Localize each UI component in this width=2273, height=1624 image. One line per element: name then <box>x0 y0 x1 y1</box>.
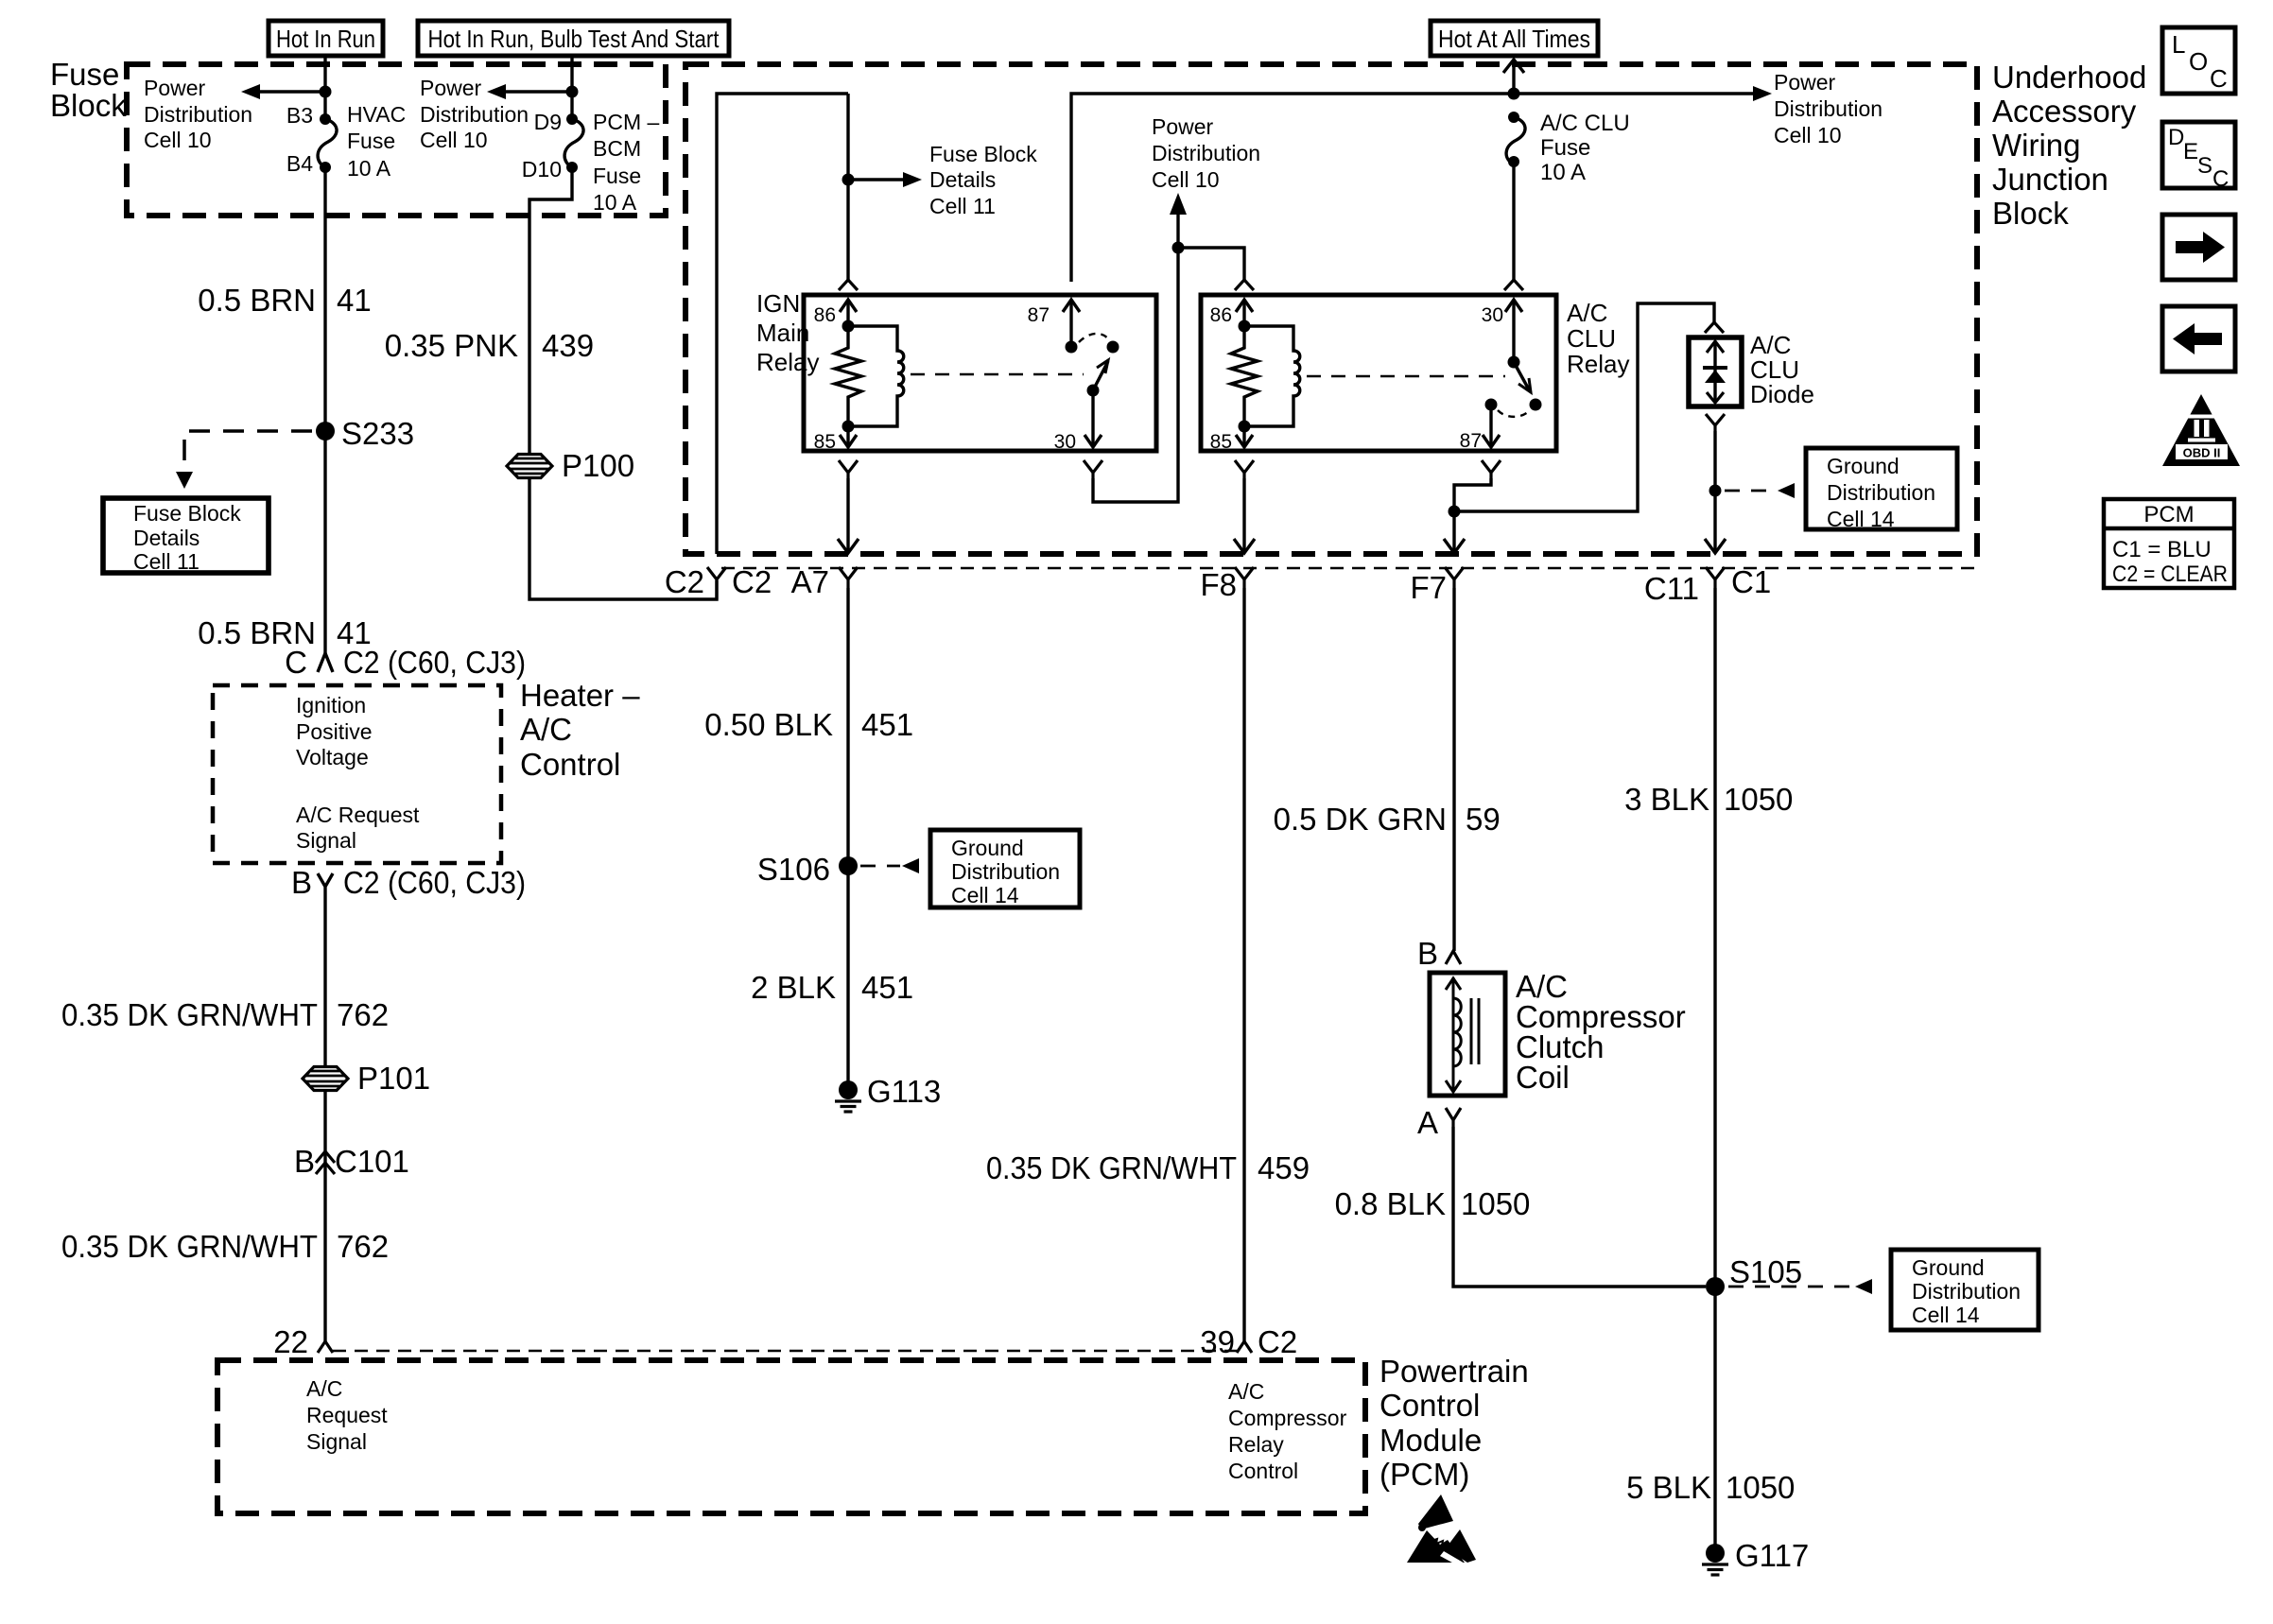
wire label 0.50 BLK 451 <box>704 707 913 742</box>
svg-text:0.35 DK GRN/WHT: 0.35 DK GRN/WHT <box>61 997 318 1032</box>
svg-text:1050: 1050 <box>1726 1470 1795 1505</box>
pin C11 / C1 fork below junction block <box>1644 564 1771 606</box>
svg-text:B: B <box>1417 936 1438 971</box>
node junction dot at A/C CLU fuse feed <box>1508 88 1520 100</box>
ground G113 <box>835 1074 941 1112</box>
svg-text:IGN: IGN <box>756 289 800 318</box>
svg-text:G113: G113 <box>867 1074 941 1109</box>
wire F7 down to clutch coil pin B <box>1452 588 1455 951</box>
svg-text:A: A <box>1417 1105 1438 1140</box>
value A/C CLU Fuse 10 A label <box>1540 111 1630 185</box>
svg-text:A/C CLU: A/C CLU <box>1540 111 1630 136</box>
svg-text:Accessory: Accessory <box>1992 94 2137 129</box>
svg-text:Relay: Relay <box>1228 1432 1284 1457</box>
svg-text:PCM –: PCM – <box>593 110 660 134</box>
svg-text:A/C: A/C <box>520 712 572 747</box>
node B4 terminal dot <box>320 162 331 173</box>
svg-text:C: C <box>285 645 307 680</box>
fuse block label <box>50 57 127 123</box>
svg-text:0.35 PNK: 0.35 PNK <box>385 328 518 363</box>
svg-text:Ground: Ground <box>1912 1255 1985 1280</box>
node Power Distribution Cell 10 text (top right) <box>1774 70 1883 147</box>
node junction dot to fuse block details <box>842 174 855 186</box>
wire from P100 down and right to junction block C2 <box>529 478 717 599</box>
wire riser to IGN relay pin 86 <box>846 94 849 282</box>
pin 85 arrow inside relay (IGN) <box>840 426 857 447</box>
svg-text:PCM: PCM <box>2143 502 2194 527</box>
svg-text:HVAC: HVAC <box>347 102 406 127</box>
svg-text:59: 59 <box>1466 802 1501 837</box>
svg-text:B: B <box>294 1144 315 1179</box>
svg-text:Cell 14: Cell 14 <box>1912 1303 1980 1327</box>
pin 86 arrow inside relay (CLU) <box>1236 300 1253 326</box>
node Hot In Run, Bulb Test And Start label box <box>418 21 729 56</box>
connector C101 inline connector <box>294 1144 409 1179</box>
svg-text:0.5 DK GRN: 0.5 DK GRN <box>1274 802 1447 837</box>
svg-text:Ground: Ground <box>1827 454 1900 478</box>
svg-text:CLU: CLU <box>1567 324 1616 353</box>
wire label 0.5 BRN 41 (lower) <box>198 615 371 650</box>
svg-text:Module: Module <box>1379 1423 1482 1458</box>
svg-text:D: D <box>2168 125 2184 150</box>
wire dashed reference to ground distribution (upper) <box>1725 483 1795 498</box>
node Powertrain Control Module dashed box <box>217 1360 1365 1513</box>
svg-text:10 A: 10 A <box>1540 160 1586 185</box>
wire arrow crossing bottom edge at F8 <box>1234 539 1255 553</box>
wire IGN 30 jog to power distribution and CLU 86 <box>1093 248 1178 502</box>
svg-text:Distribution: Distribution <box>951 859 1060 884</box>
svg-text:C: C <box>2212 166 2229 192</box>
svg-text:Cell 14: Cell 14 <box>951 883 1019 907</box>
wire dashed switch throw arc (CLU) <box>1498 410 1529 417</box>
wire junction block internal bus (right segment) <box>1071 94 1754 282</box>
node DESC legend box <box>2162 122 2235 192</box>
value HVAC Fuse 10 A label <box>347 102 406 181</box>
pin 86 arrow inside relay (IGN) <box>840 300 857 326</box>
pin 85 fork below IGN relay <box>839 460 858 478</box>
wire from coil A to splice S105 <box>1453 1127 1706 1287</box>
svg-text:30: 30 <box>1482 304 1503 326</box>
svg-text:S233: S233 <box>341 416 414 451</box>
wire D10 down and jog left to P100 <box>529 167 572 455</box>
node Heater A/C Control label <box>520 678 640 782</box>
svg-text:C1: C1 <box>1731 564 1771 599</box>
wire dashed switch throw arc (IGN) <box>1079 334 1110 342</box>
svg-text:Cell 14: Cell 14 <box>1827 507 1895 531</box>
svg-text:Details: Details <box>929 167 996 192</box>
svg-text:C: C <box>2210 64 2228 93</box>
fuse A/C CLU Fuse 10 A <box>1506 112 1525 167</box>
svg-text:C2: C2 <box>732 564 772 599</box>
wire from Hot In Run box into fuse block <box>323 56 326 119</box>
pin diode top connector chevron <box>1705 322 1724 333</box>
ESD sensitive device symbol <box>1407 1494 1476 1567</box>
wire label 0.35 DK GRN/WHT 762 (upper) <box>61 997 389 1032</box>
wire arrow to power distribution (left) <box>241 84 325 99</box>
wire branch to CLU relay pin 86 <box>1178 248 1244 282</box>
svg-text:C2: C2 <box>1258 1324 1297 1359</box>
svg-text:Details: Details <box>133 526 200 550</box>
svg-text:Fuse Block: Fuse Block <box>133 501 241 526</box>
svg-text:Control: Control <box>1379 1388 1480 1423</box>
coil A/C Compressor Clutch Coil box <box>1430 973 1505 1096</box>
svg-text:22: 22 <box>273 1324 308 1359</box>
node junction dot on HVAC feed <box>320 86 332 98</box>
pin 87 fork below CLU relay <box>1482 460 1501 478</box>
svg-text:Heater –: Heater – <box>520 678 640 713</box>
svg-text:G117: G117 <box>1735 1538 1809 1573</box>
svg-text:Hot At All Times: Hot At All Times <box>1438 25 1590 53</box>
wire arrow up to Power Distribution Cell 10 <box>1170 193 1187 248</box>
wire arrow to power distribution (middle) <box>487 84 572 99</box>
pin C2 fork below junction block <box>665 564 772 599</box>
node Ground Distribution Cell 14 box (upper right) <box>1806 448 1957 531</box>
wire dashed coil to switch (IGN) <box>911 373 1084 376</box>
node B3 terminal dot <box>320 113 331 125</box>
pin 85 arrow inside relay (CLU) <box>1236 426 1253 447</box>
svg-text:P101: P101 <box>357 1061 430 1096</box>
svg-text:86: 86 <box>1210 304 1232 326</box>
wire label 0.5 BRN 41 (upper) <box>198 283 371 318</box>
wire arrow to power distribution cell 10 (right) <box>1753 86 1772 101</box>
pin 39 into PCM <box>1200 1324 1297 1359</box>
wire arrow to fuse block details <box>848 172 922 187</box>
svg-text:Fuse: Fuse <box>1540 135 1590 161</box>
svg-text:A/C: A/C <box>1567 299 1607 327</box>
svg-text:Power: Power <box>420 76 482 100</box>
svg-text:Cell 10: Cell 10 <box>1152 167 1220 192</box>
inductor relay coil (CLU) <box>1244 326 1300 426</box>
svg-text:30: 30 <box>1054 431 1076 453</box>
svg-text:86: 86 <box>814 304 836 326</box>
svg-text:451: 451 <box>861 707 913 742</box>
wire dashed reference from S233 to fuse block details <box>184 431 312 470</box>
svg-text:Wiring: Wiring <box>1992 128 2081 163</box>
node switch pivot dot (CLU) <box>1508 356 1520 369</box>
resistor relay resistor (IGN) <box>835 326 861 426</box>
wire thin dashed PCM-side connector line (junction block) <box>721 567 1975 570</box>
svg-text:5 BLK: 5 BLK <box>1626 1470 1711 1505</box>
node IGN Main Relay label <box>756 289 819 376</box>
svg-text:O: O <box>2189 47 2208 76</box>
svg-text:Control: Control <box>1228 1459 1298 1483</box>
svg-text:C2: C2 <box>665 564 704 599</box>
svg-text:B3: B3 <box>286 103 313 128</box>
svg-text:BCM: BCM <box>593 136 641 161</box>
svg-text:Voltage: Voltage <box>296 745 369 769</box>
svg-text:Powertrain: Powertrain <box>1379 1354 1529 1389</box>
pin 87 arrow inside relay (IGN) <box>1063 300 1080 347</box>
node switch fixed contact 87 dot (IGN) <box>1066 341 1078 354</box>
wire label 0.8 BLK 1050 <box>1335 1186 1531 1221</box>
pin B of clutch coil <box>1417 936 1461 971</box>
wire arrow up to Hot At All Times <box>1503 60 1524 94</box>
pin 30 connector chevron (CLU) <box>1504 280 1523 290</box>
svg-text:Power: Power <box>1774 70 1836 95</box>
svg-text:S: S <box>2197 153 2212 179</box>
svg-text:459: 459 <box>1258 1150 1310 1185</box>
svg-text:1050: 1050 <box>1461 1186 1530 1221</box>
svg-text:451: 451 <box>861 970 913 1005</box>
svg-text:Ignition: Ignition <box>296 693 366 717</box>
wire CLU 87 jog left then down to F7 <box>1454 478 1491 553</box>
svg-text:Underhood: Underhood <box>1992 60 2146 95</box>
node D9 terminal dot <box>566 113 578 125</box>
ground G117 <box>1702 1538 1809 1575</box>
diode element inside <box>1703 341 1727 403</box>
pin 86 connector chevron (IGN) <box>839 280 858 290</box>
svg-text:C11: C11 <box>1644 571 1699 606</box>
svg-text:Request: Request <box>306 1403 388 1427</box>
pin 87 arrow inside relay (CLU) <box>1483 405 1500 447</box>
svg-text:Fuse: Fuse <box>593 164 641 188</box>
pin 30 fork below IGN relay <box>1084 460 1102 478</box>
svg-text:Cell 10: Cell 10 <box>420 128 488 152</box>
node A/C request signal text (PCM) <box>306 1376 388 1454</box>
svg-text:Distribution: Distribution <box>144 102 252 127</box>
svg-text:Control: Control <box>520 747 620 782</box>
connector P100 grommet symbol <box>507 448 634 483</box>
svg-text:Signal: Signal <box>306 1429 367 1454</box>
svg-text:F8: F8 <box>1200 567 1237 602</box>
svg-text:C1 = BLU: C1 = BLU <box>2112 537 2212 562</box>
node switch moving contact dot (CLU) <box>1530 399 1542 411</box>
wire fuse output down to A/C CLU relay pin 30 <box>1512 162 1515 282</box>
svg-text:P100: P100 <box>562 448 634 483</box>
svg-text:Signal: Signal <box>296 828 356 853</box>
node Power Distribution Cell 10 text (fuse block left) <box>144 76 252 152</box>
wire CLU 85 down to bottom edge (F8) <box>1242 478 1245 553</box>
coil element inside <box>1446 977 1479 1092</box>
diode A/C CLU Diode box <box>1689 337 1742 406</box>
svg-text:1050: 1050 <box>1724 782 1793 817</box>
svg-text:2 BLK: 2 BLK <box>751 970 836 1005</box>
switch relay armature (CLU) <box>1514 362 1531 392</box>
svg-text:E: E <box>2183 139 2198 164</box>
wire label 2 BLK 451 <box>751 970 913 1005</box>
underhood accessory wiring junction block dashed outline <box>685 64 1977 554</box>
node switch pivot dot (IGN) <box>1087 385 1100 397</box>
wire C1 down through S105 to ground G117 <box>1713 588 1716 1552</box>
svg-text:85: 85 <box>1210 431 1232 453</box>
svg-text:OBD II: OBD II <box>2183 446 2221 460</box>
pin B connector out of heater control <box>291 865 526 900</box>
pin 85 fork below CLU relay <box>1235 460 1254 478</box>
node Power Distribution Cell 10 text (fuse block middle) <box>420 76 529 152</box>
wire label 0.5 DK GRN 59 <box>1274 802 1501 837</box>
node right-arrow legend box <box>2162 215 2235 280</box>
svg-text:Ground: Ground <box>951 836 1024 860</box>
svg-text:Block: Block <box>1992 196 2069 231</box>
node A/C CLU Relay label <box>1567 299 1629 378</box>
svg-text:87: 87 <box>1028 304 1050 326</box>
svg-text:D10: D10 <box>522 157 562 181</box>
node A/C Compressor Clutch Coil label <box>1516 969 1686 1095</box>
svg-text:85: 85 <box>814 431 836 453</box>
pin 30 arrow inside relay (CLU) <box>1505 300 1522 362</box>
svg-text:Distribution: Distribution <box>1774 96 1883 121</box>
svg-text:Distribution: Distribution <box>1827 480 1935 505</box>
svg-text:C2 (C60, CJ3): C2 (C60, CJ3) <box>343 645 526 680</box>
svg-text:10 A: 10 A <box>347 156 391 181</box>
wire dashed reference to ground distribution (S106) <box>860 858 919 873</box>
node LOC legend box <box>2162 27 2235 94</box>
wire arrow crossing bottom edge at F7 <box>1444 539 1465 553</box>
wire diode output down to bottom edge (C1) <box>1713 431 1716 553</box>
fuse PCM-BCM Fuse 10 A element (S-curve) <box>564 119 583 167</box>
node splice S105 <box>1706 1277 1725 1296</box>
value PCM-BCM Fuse 10 A label <box>593 110 660 215</box>
fuse block dashed outline <box>127 64 666 216</box>
svg-text:Main: Main <box>756 319 809 347</box>
svg-text:L: L <box>2172 30 2185 59</box>
node Powertrain Control Module (PCM) label <box>1379 1354 1529 1492</box>
pin 30 arrow inside relay (IGN) <box>1084 390 1102 447</box>
svg-text:0.35 DK GRN/WHT: 0.35 DK GRN/WHT <box>61 1229 318 1264</box>
wire branch from F7 junction to A/C CLU diode <box>1454 303 1714 511</box>
pin A of clutch coil <box>1417 1105 1461 1140</box>
node D10 terminal dot <box>566 162 578 173</box>
wire dashed coil to switch (CLU) <box>1307 375 1505 378</box>
wire label 0.35 DK GRN/WHT 459 <box>986 1150 1310 1185</box>
svg-text:Hot In Run: Hot In Run <box>276 25 375 53</box>
svg-text:87: 87 <box>1460 430 1482 452</box>
pin C connector into heater control <box>285 645 526 680</box>
svg-text:0.50 BLK: 0.50 BLK <box>704 707 833 742</box>
pin A7 fork below junction block <box>791 564 858 599</box>
svg-text:B4: B4 <box>286 151 313 176</box>
svg-text:A/C Request: A/C Request <box>296 803 420 827</box>
node PCM connector legend table <box>2104 499 2234 588</box>
svg-text:Relay: Relay <box>756 348 819 376</box>
node Hot At All Times label box <box>1431 21 1598 56</box>
svg-text:Cell 11: Cell 11 <box>929 194 996 218</box>
node A/C compressor relay control text (PCM) <box>1228 1379 1347 1483</box>
svg-text:762: 762 <box>337 997 389 1032</box>
svg-text:Power: Power <box>144 76 206 100</box>
node relay coil bottom dot (CLU) <box>1239 421 1251 433</box>
node splice S106 <box>839 856 858 875</box>
wire label 0.35 PNK 439 <box>385 328 594 363</box>
svg-text:C101: C101 <box>335 1144 409 1179</box>
node OBD II triangle symbol <box>2162 394 2240 466</box>
pin F8 fork below junction block <box>1200 567 1254 602</box>
node Fuse Block Details Cell 11 text (junction block) <box>929 142 1037 218</box>
svg-text:Distribution: Distribution <box>1152 141 1260 165</box>
svg-text:F7: F7 <box>1410 570 1447 605</box>
svg-text:Junction: Junction <box>1992 162 2108 197</box>
node junction dot to ground distribution (upper) <box>1709 485 1722 497</box>
wire thin dashed PCM connector line <box>333 1350 1237 1353</box>
wire F8 down to PCM pin 39 <box>1242 588 1245 1341</box>
svg-text:C2 = CLEAR: C2 = CLEAR <box>2112 561 2228 587</box>
svg-text:3 BLK: 3 BLK <box>1624 782 1709 817</box>
svg-text:S106: S106 <box>757 852 830 887</box>
resistor relay resistor (CLU) <box>1231 326 1258 426</box>
svg-text:0.35 DK GRN/WHT: 0.35 DK GRN/WHT <box>986 1150 1237 1185</box>
wire junction block internal bus (left segment) <box>717 94 848 554</box>
node junction dot at power distribution branch <box>1172 242 1185 254</box>
svg-text:Fuse: Fuse <box>50 57 119 92</box>
svg-text:S105: S105 <box>1729 1254 1802 1289</box>
node Heater A/C Control dashed box <box>213 685 501 863</box>
svg-text:Power: Power <box>1152 114 1214 139</box>
node ignition positive voltage text <box>296 693 373 769</box>
wire arrow crossing bottom edge at A7 <box>838 539 859 553</box>
svg-text:(PCM): (PCM) <box>1379 1457 1469 1492</box>
inductor relay coil (IGN) <box>848 326 904 426</box>
wire IGN 85 down to bottom edge (A7) <box>846 478 849 553</box>
svg-text:Relay: Relay <box>1567 350 1629 378</box>
svg-text:B: B <box>291 865 312 900</box>
wire from Hot In Run Bulb Test box into fuse block <box>570 56 573 119</box>
svg-text:Positive: Positive <box>296 719 373 744</box>
node splice S233 <box>316 422 335 441</box>
svg-text:Cell 11: Cell 11 <box>133 549 200 574</box>
svg-text:D9: D9 <box>534 110 562 134</box>
svg-text:41: 41 <box>337 283 372 318</box>
svg-text:A7: A7 <box>791 564 829 599</box>
wire arrow crossing bottom edge at C1 <box>1705 539 1726 553</box>
svg-text:0.8 BLK: 0.8 BLK <box>1335 1186 1446 1221</box>
node junction dot on F7 wire <box>1449 506 1461 518</box>
node relay coil top dot (CLU) <box>1239 320 1251 333</box>
wire label 5 BLK 1050 <box>1626 1470 1795 1505</box>
switch relay armature (IGN) <box>1093 360 1108 390</box>
svg-text:Block: Block <box>50 88 127 123</box>
wire label 0.35 DK GRN/WHT 762 (lower) <box>61 1229 389 1264</box>
wire dashed reference to ground distribution (S105) <box>1728 1279 1872 1294</box>
connector P101 grommet symbol <box>303 1061 430 1096</box>
node junction dot on PCM-BCM feed <box>566 86 579 98</box>
svg-text:Fuse: Fuse <box>347 129 395 153</box>
svg-text:Diode: Diode <box>1750 380 1814 408</box>
pin diode bottom fork <box>1706 414 1725 431</box>
node Hot In Run label box <box>269 21 383 56</box>
svg-text:Distribution: Distribution <box>1912 1279 2021 1304</box>
svg-text:Coil: Coil <box>1516 1060 1570 1095</box>
svg-text:762: 762 <box>337 1229 389 1264</box>
node Ground Distribution Cell 14 box (lower right) <box>1891 1250 2039 1330</box>
pin F7 fork below junction block <box>1410 567 1464 605</box>
fuse HVAC Fuse 10 A element (S-curve) <box>318 119 337 167</box>
relay A/C CLU Relay box <box>1201 295 1556 451</box>
svg-text:Compressor: Compressor <box>1228 1406 1347 1430</box>
pin 22 into PCM <box>273 1324 333 1359</box>
svg-text:439: 439 <box>542 328 594 363</box>
svg-text:Cell 10: Cell 10 <box>1774 123 1842 147</box>
svg-text:Distribution: Distribution <box>420 102 529 127</box>
node Fuse Block Details Cell 11 box (left) <box>103 498 269 574</box>
underhood accessory wiring junction block label <box>1992 60 2146 231</box>
wire from B down through P101 and C101 to PCM pin 22 <box>323 895 326 1343</box>
node relay coil bottom dot (IGN) <box>842 421 855 433</box>
wire label 3 BLK 1050 <box>1624 782 1793 817</box>
node Ground Distribution Cell 14 box (center) <box>930 830 1080 907</box>
svg-text:0.5 BRN: 0.5 BRN <box>198 283 316 318</box>
wire A7 down to ground G113 <box>846 588 849 1089</box>
node left-arrow legend box <box>2162 306 2235 371</box>
svg-text:39: 39 <box>1200 1324 1235 1359</box>
wire HVAC fuse output down to S233 and connector C <box>323 167 326 653</box>
svg-text:Fuse Block: Fuse Block <box>929 142 1037 166</box>
node switch fixed contact 87 dot (CLU) <box>1485 399 1498 411</box>
node switch moving contact dot (IGN) <box>1107 341 1119 354</box>
op-amp n/a : relay IGN Main Relay box <box>804 295 1156 451</box>
svg-text:Cell 10: Cell 10 <box>144 128 212 152</box>
svg-text:A/C: A/C <box>306 1376 342 1401</box>
svg-text:10 A: 10 A <box>593 190 637 215</box>
